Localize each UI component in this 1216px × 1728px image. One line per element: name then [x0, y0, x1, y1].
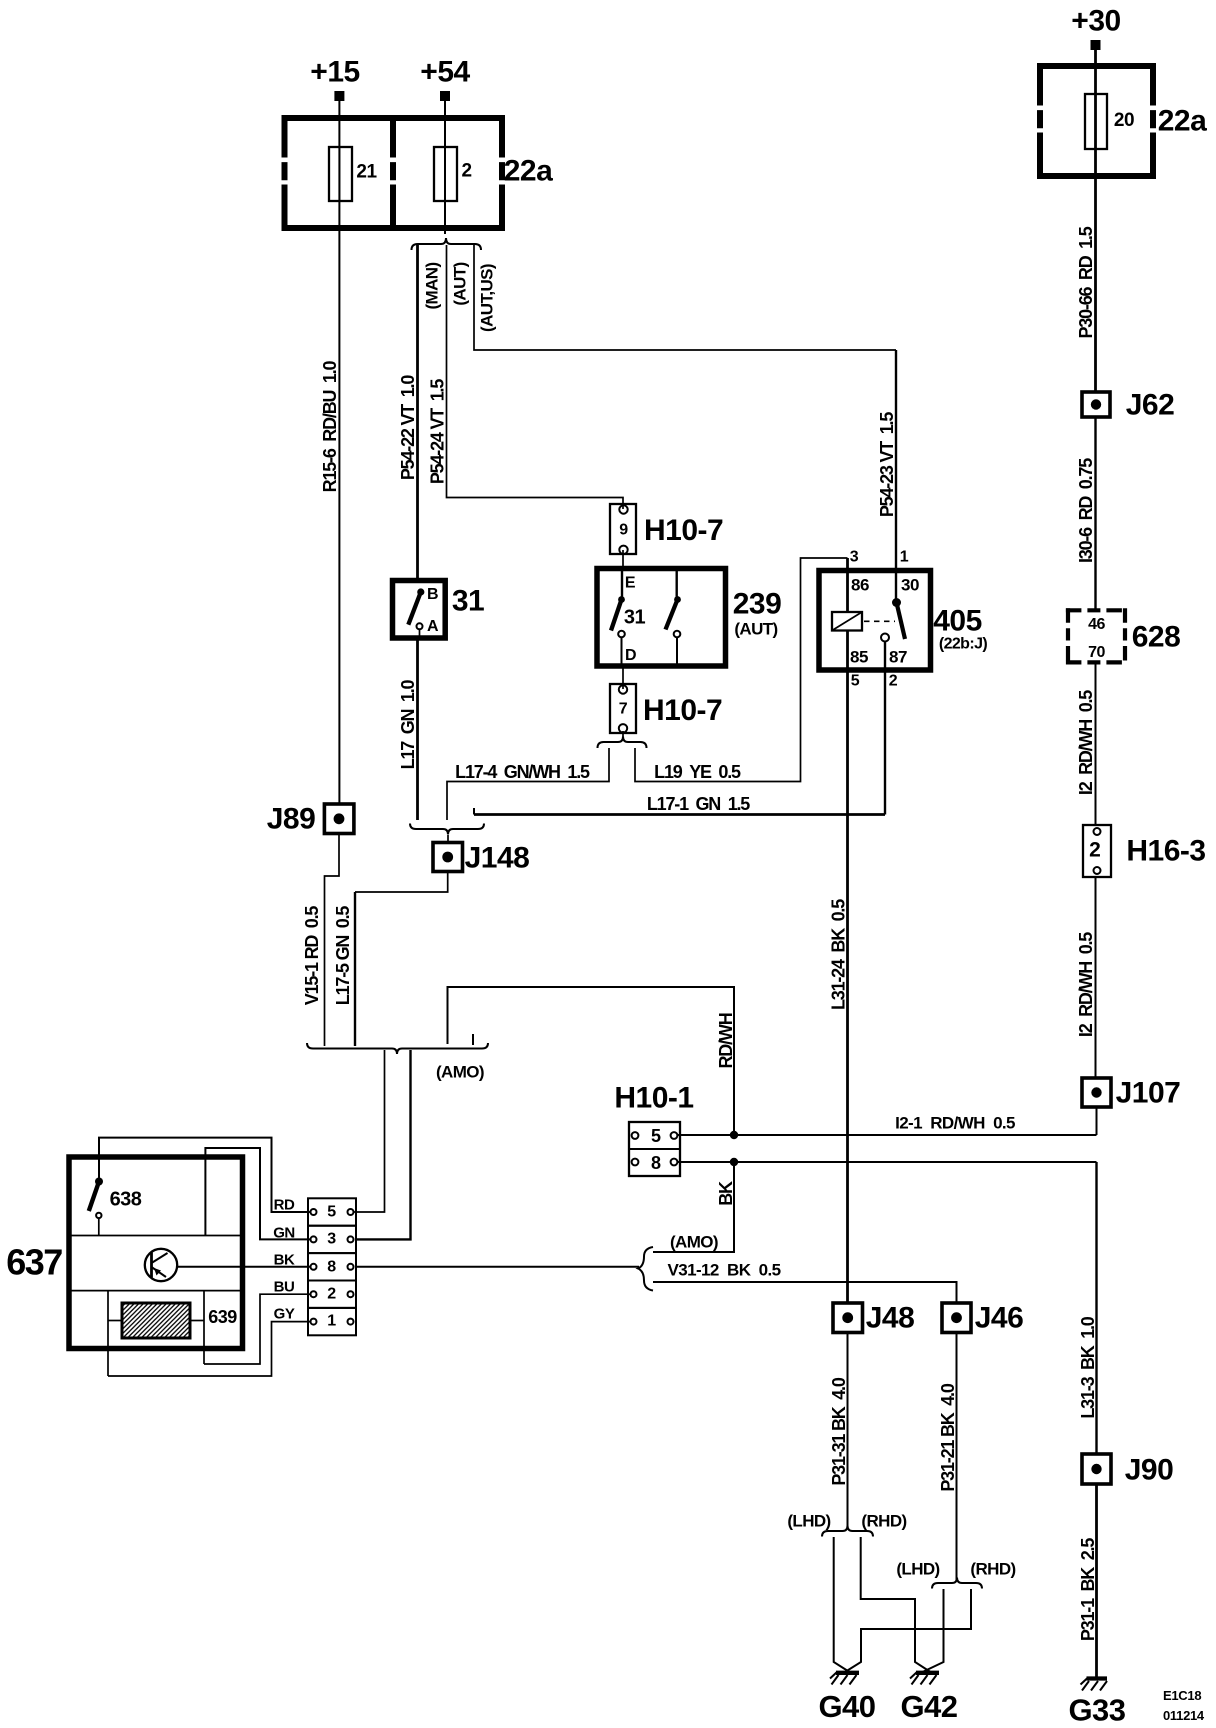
svg-text:639: 639	[208, 1307, 237, 1327]
svg-text:(22b:J): (22b:J)	[939, 636, 988, 653]
svg-text:20: 20	[1114, 110, 1134, 131]
svg-text:+15: +15	[310, 56, 359, 89]
svg-text:405: 405	[933, 605, 982, 638]
svg-text:V15-1 RD 0.5: V15-1 RD 0.5	[302, 906, 322, 1006]
svg-text:46: 46	[1088, 616, 1105, 633]
svg-text:3: 3	[850, 549, 859, 566]
svg-text:7: 7	[619, 701, 628, 718]
svg-text:31: 31	[624, 607, 646, 629]
svg-text:J48: J48	[866, 1302, 915, 1335]
svg-text:J148: J148	[465, 842, 530, 875]
svg-text:I2 RD/WH 0.5: I2 RD/WH 0.5	[1076, 932, 1096, 1037]
svg-text:BU: BU	[274, 1279, 295, 1296]
svg-text:30: 30	[901, 576, 919, 595]
svg-text:22a: 22a	[1158, 105, 1207, 138]
svg-text:E: E	[625, 575, 636, 592]
svg-text:A: A	[427, 618, 439, 635]
svg-text:239: 239	[733, 588, 782, 621]
svg-text:P31-1 BK 2.5: P31-1 BK 2.5	[1078, 1538, 1098, 1641]
svg-text:J46: J46	[975, 1302, 1024, 1335]
svg-text:H10-7: H10-7	[643, 694, 722, 727]
svg-text:21: 21	[356, 162, 377, 183]
svg-text:P30-66 RD 1.5: P30-66 RD 1.5	[1076, 226, 1096, 338]
svg-text:P31-21 BK 4.0: P31-21 BK 4.0	[938, 1383, 958, 1491]
svg-text:RD/WH: RD/WH	[716, 1013, 736, 1068]
svg-text:22a: 22a	[504, 155, 553, 188]
svg-text:(AUT,US): (AUT,US)	[478, 264, 497, 332]
svg-text:+54: +54	[420, 56, 470, 89]
svg-text:P54-24 VT 1.5: P54-24 VT 1.5	[428, 379, 448, 484]
svg-text:BK: BK	[274, 1252, 295, 1269]
svg-text:86: 86	[851, 576, 869, 595]
svg-text:J107: J107	[1116, 1077, 1181, 1110]
svg-text:637: 637	[6, 1242, 62, 1283]
svg-text:(RHD): (RHD)	[970, 1560, 1015, 1579]
svg-text:J89: J89	[267, 803, 316, 836]
svg-text:GY: GY	[274, 1306, 295, 1323]
svg-text:H10-7: H10-7	[644, 514, 723, 547]
svg-text:8: 8	[327, 1259, 336, 1276]
svg-text:+30: +30	[1071, 5, 1120, 38]
svg-text:H16-3: H16-3	[1126, 835, 1205, 868]
svg-text:J90: J90	[1125, 1454, 1174, 1487]
svg-text:628: 628	[1132, 621, 1181, 654]
svg-text:1: 1	[900, 549, 909, 566]
svg-text:87: 87	[889, 648, 907, 667]
svg-text:P31-31 BK 4.0: P31-31 BK 4.0	[829, 1377, 849, 1485]
svg-text:G33: G33	[1068, 1693, 1125, 1728]
svg-text:I2 RD/WH 0.5: I2 RD/WH 0.5	[1076, 690, 1096, 795]
svg-text:5: 5	[327, 1204, 336, 1221]
svg-text:5: 5	[651, 1126, 661, 1146]
svg-text:H10-1: H10-1	[614, 1082, 693, 1115]
svg-text:2: 2	[461, 161, 471, 182]
svg-text:(AMO): (AMO)	[670, 1233, 718, 1252]
svg-text:70: 70	[1088, 644, 1105, 661]
svg-text:R15-6 RD/BU 1.0: R15-6 RD/BU 1.0	[320, 360, 340, 492]
svg-text:1: 1	[327, 1313, 336, 1330]
svg-text:L19 YE 0.5: L19 YE 0.5	[654, 762, 741, 782]
svg-text:BK: BK	[716, 1181, 736, 1206]
svg-text:P54-22 VT 1.0: P54-22 VT 1.0	[398, 375, 418, 480]
svg-text:J62: J62	[1126, 389, 1175, 422]
svg-text:E1C18: E1C18	[1163, 1688, 1201, 1703]
svg-text:L17-1 GN 1.5: L17-1 GN 1.5	[647, 794, 750, 814]
svg-text:L31-24 BK 0.5: L31-24 BK 0.5	[829, 899, 849, 1010]
svg-text:GN: GN	[273, 1225, 295, 1242]
svg-text:(AMO): (AMO)	[436, 1063, 484, 1082]
svg-text:2: 2	[889, 673, 898, 690]
svg-text:D: D	[625, 647, 636, 664]
svg-text:(AUT): (AUT)	[451, 262, 470, 305]
svg-text:I2-1 RD/WH 0.5: I2-1 RD/WH 0.5	[895, 1114, 1015, 1133]
svg-text:L17 GN 1.0: L17 GN 1.0	[398, 679, 418, 769]
svg-text:B: B	[427, 586, 438, 603]
svg-text:9: 9	[619, 522, 628, 539]
svg-text:V31-12 BK 0.5: V31-12 BK 0.5	[668, 1261, 781, 1280]
svg-text:L17-5 GN 0.5: L17-5 GN 0.5	[333, 906, 353, 1006]
svg-text:8: 8	[651, 1153, 661, 1173]
svg-text:31: 31	[452, 585, 484, 618]
svg-text:(MAN): (MAN)	[423, 262, 442, 309]
svg-text:5: 5	[851, 673, 860, 690]
svg-text:L17-4 GN/WH 1.5: L17-4 GN/WH 1.5	[455, 762, 590, 782]
svg-text:3: 3	[327, 1231, 336, 1248]
svg-text:G42: G42	[900, 1689, 957, 1724]
svg-text:638: 638	[110, 1189, 142, 1211]
svg-text:(AUT): (AUT)	[734, 620, 777, 639]
svg-text:RD: RD	[274, 1197, 295, 1214]
svg-text:G40: G40	[818, 1689, 875, 1724]
svg-text:(RHD): (RHD)	[861, 1512, 906, 1531]
svg-text:85: 85	[850, 648, 868, 667]
svg-text:L31-3 BK 1.0: L31-3 BK 1.0	[1078, 1316, 1098, 1418]
svg-text:(LHD): (LHD)	[787, 1512, 830, 1531]
svg-text:P54-23 VT 1.5: P54-23 VT 1.5	[877, 412, 897, 517]
svg-text:2: 2	[327, 1286, 336, 1303]
svg-text:2: 2	[1089, 839, 1101, 862]
svg-text:(LHD): (LHD)	[896, 1560, 939, 1579]
svg-text:011214: 011214	[1163, 1708, 1205, 1723]
svg-text:I30-6 RD 0.75: I30-6 RD 0.75	[1076, 458, 1096, 563]
